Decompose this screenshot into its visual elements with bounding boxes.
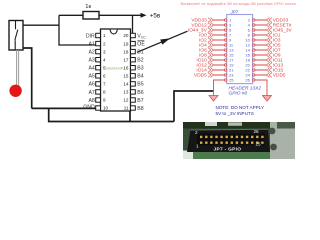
svg-text:2: 2 — [195, 130, 198, 135]
svg-text:+5в: +5в — [150, 12, 161, 19]
svg-text:B8: B8 — [137, 106, 143, 112]
svg-text:JP7: JP7 — [230, 10, 239, 15]
svg-text:5V to _3V INPUTS: 5V to _3V INPUTS — [216, 111, 254, 116]
svg-text:Внимание! не подавайте 5В на в: Внимание! не подавайте 5В на входы 3В ра… — [181, 1, 297, 6]
svg-text:A6: A6 — [88, 82, 94, 88]
svg-text:HEADER 13X2: HEADER 13X2 — [229, 85, 262, 91]
svg-text:11: 11 — [124, 106, 129, 111]
svg-text:VCC: VCC — [137, 33, 146, 39]
svg-text:18: 18 — [123, 49, 129, 54]
svg-text:19: 19 — [123, 41, 129, 46]
svg-text:B6: B6 — [137, 90, 143, 96]
svg-text:7: 7 — [103, 82, 106, 87]
svg-text:B5: B5 — [137, 82, 143, 88]
svg-text:B2: B2 — [137, 58, 143, 64]
svg-text:A4: A4 — [88, 66, 94, 72]
svg-text:A1: A1 — [88, 42, 94, 48]
svg-text:VDD5: VDD5 — [194, 73, 207, 79]
svg-text:B1: B1 — [137, 50, 143, 56]
svg-text:A5: A5 — [88, 74, 94, 80]
svg-text:25: 25 — [229, 78, 234, 83]
svg-text:25: 25 — [256, 142, 262, 147]
svg-text:1: 1 — [103, 33, 106, 38]
svg-text:10: 10 — [103, 106, 109, 111]
svg-text:15: 15 — [123, 74, 129, 79]
svg-text:6: 6 — [103, 74, 106, 79]
svg-text:B4: B4 — [137, 74, 143, 80]
svg-text:A7: A7 — [88, 90, 94, 96]
svg-text:DIR: DIR — [86, 33, 95, 39]
svg-text:4: 4 — [103, 57, 106, 62]
svg-text:A8: A8 — [88, 98, 94, 104]
svg-text:2: 2 — [103, 41, 106, 46]
svg-text:OE: OE — [137, 42, 145, 48]
svg-text:NOTE: DO NOT APPLY: NOTE: DO NOT APPLY — [216, 105, 265, 110]
svg-text:GND: GND — [83, 104, 95, 110]
svg-text:GPIO #0: GPIO #0 — [229, 91, 248, 97]
svg-text:B3: B3 — [137, 66, 143, 72]
svg-text:1: 1 — [196, 144, 199, 149]
svg-text:3: 3 — [103, 49, 106, 54]
svg-text:13: 13 — [123, 90, 129, 95]
svg-text:1к: 1к — [85, 4, 91, 10]
svg-text:26: 26 — [245, 78, 250, 83]
svg-text:17: 17 — [123, 57, 129, 62]
svg-text:B7: B7 — [137, 98, 143, 104]
svg-text:14: 14 — [123, 82, 129, 87]
svg-text:9: 9 — [103, 98, 106, 103]
svg-text:VDD5: VDD5 — [273, 73, 286, 79]
svg-text:A2: A2 — [88, 50, 94, 56]
svg-text:8: 8 — [103, 90, 106, 95]
svg-text:20: 20 — [123, 33, 129, 38]
svg-text:26: 26 — [254, 129, 260, 134]
svg-text:12: 12 — [123, 98, 129, 103]
svg-text:A3: A3 — [88, 58, 94, 64]
svg-text:JP7 - GPIO: JP7 - GPIO — [214, 147, 242, 153]
svg-text:DataSheet4U: DataSheet4U — [105, 67, 126, 71]
